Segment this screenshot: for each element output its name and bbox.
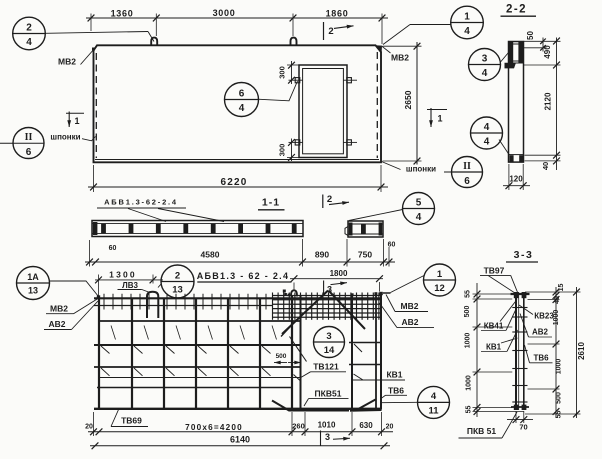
section 2-2 top key block dark walls — [509, 42, 513, 63]
svg-text:55: 55 — [466, 406, 473, 414]
svg-text:300: 300 — [278, 66, 287, 79]
witness lines top chain — [90, 14, 92, 32]
plan: inner bottom line — [95, 159, 379, 161]
plan right corner plate dash — [383, 292, 391, 294]
svg-text:КВ1: КВ1 — [486, 343, 502, 352]
svg-text:13: 13 — [172, 285, 183, 296]
section mark 3 top — [323, 281, 325, 296]
circle mark 1/12 — [424, 264, 456, 296]
plan: hinge marks — [295, 78, 300, 83]
svg-text:55: 55 — [465, 290, 472, 298]
svg-text:II: II — [463, 161, 471, 172]
section mark 2 top — [323, 22, 325, 40]
bent bars PKV51 at bottom — [272, 401, 349, 411]
svg-text:700х6=4200: 700х6=4200 — [185, 423, 243, 432]
reinf plan: lifting loop at opening — [291, 290, 297, 296]
svg-text:АВ2: АВ2 — [532, 328, 549, 337]
svg-text:АБВ1.3-62-2.4: АБВ1.3-62-2.4 — [104, 198, 178, 207]
svg-text:1000: 1000 — [465, 333, 472, 349]
section 2-2 member outline — [509, 42, 524, 163]
svg-text:5: 5 — [416, 197, 422, 208]
svg-text:3: 3 — [327, 285, 332, 295]
svg-text:14: 14 — [324, 345, 335, 356]
dim 1800 — [290, 278, 383, 280]
svg-text:ТВ97: ТВ97 — [484, 266, 505, 276]
svg-text:60: 60 — [388, 242, 396, 249]
1-1 dimension chain — [85, 261, 395, 263]
plan view: panel outline — [94, 45, 382, 162]
circle mark 1/4 — [451, 6, 484, 39]
3-3 member cross ties — [511, 293, 530, 295]
svg-text:1-1: 1-1 — [262, 197, 280, 209]
svg-text:55: 55 — [556, 411, 563, 419]
plan: lifting loop 1 — [151, 38, 157, 46]
dim 490 / 2120 / 40 on shared line — [556, 38, 558, 171]
1-1 left hollow block — [92, 221, 303, 237]
svg-text:1010: 1010 — [318, 421, 336, 430]
circle mark 6/4 at opening — [225, 83, 259, 117]
svg-text:1: 1 — [437, 269, 443, 280]
svg-text:ТВ6: ТВ6 — [388, 385, 404, 395]
svg-text:шпонки: шпонки — [406, 164, 436, 173]
plan: door opening outer — [299, 65, 347, 158]
dim 6220 bottom of plan — [88, 186, 388, 188]
svg-text:МВ2: МВ2 — [50, 304, 68, 314]
3-3 member verticals — [515, 292, 517, 410]
svg-text:2610: 2610 — [577, 342, 586, 360]
svg-text:3000: 3000 — [213, 8, 236, 18]
svg-text:2: 2 — [327, 194, 332, 205]
svg-text:АВ2: АВ2 — [401, 317, 418, 327]
svg-text:МВ2: МВ2 — [391, 53, 409, 63]
reinf plan: top chord — [94, 297, 381, 299]
svg-text:4: 4 — [26, 37, 32, 48]
svg-text:500: 500 — [556, 392, 563, 404]
svg-text:ПКВ 51: ПКВ 51 — [467, 426, 497, 436]
svg-text:4580: 4580 — [201, 250, 220, 260]
svg-text:630: 630 — [359, 421, 373, 430]
dim 120 bottom — [508, 164, 510, 190]
plan: inner right dashed key line — [376, 52, 378, 158]
svg-text:2120: 2120 — [544, 92, 553, 110]
circle mark 3/4 — [469, 49, 501, 81]
circle mark 4/11 — [418, 386, 450, 418]
svg-text:20: 20 — [85, 424, 93, 431]
svg-text:II: II — [25, 132, 33, 143]
svg-text:4: 4 — [484, 137, 490, 148]
circle mark 3/14 — [314, 327, 345, 358]
svg-text:1: 1 — [464, 11, 470, 22]
svg-text:20: 20 — [386, 423, 394, 430]
svg-text:3: 3 — [482, 53, 488, 64]
reinf plan: diagonal bars over opening — [282, 291, 328, 335]
svg-text:4: 4 — [239, 103, 245, 114]
svg-text:ТВ6: ТВ6 — [533, 354, 549, 363]
plan: inner left dashed key line — [95, 53, 97, 158]
circle mark II/6 left + shponki label — [0, 142, 44, 144]
svg-text:2-2: 2-2 — [506, 4, 527, 16]
3-3 right dim line inner — [555, 287, 557, 418]
svg-text:300: 300 — [278, 144, 287, 157]
3-3 outer dim 2610 — [576, 287, 578, 418]
svg-text:1: 1 — [74, 116, 79, 126]
plan: lifting loop 2 — [291, 38, 297, 46]
section mark 1 left — [66, 112, 84, 114]
svg-text:2: 2 — [26, 22, 32, 33]
svg-text:1000: 1000 — [556, 359, 563, 375]
reinf plan: horizontal rows left — [99, 320, 301, 322]
circle mark 2/13 — [161, 265, 194, 298]
svg-text:ТВ69: ТВ69 — [121, 415, 142, 425]
svg-text:260: 260 — [292, 422, 305, 431]
svg-text:1300: 1300 — [109, 270, 137, 280]
reinf plan: embedded plate dots — [97, 295, 100, 298]
reinf plan: top chord cross ticks — [103, 294, 105, 310]
svg-text:6140: 6140 — [230, 434, 250, 444]
dim 50 top — [542, 38, 544, 52]
circle mark 1A/13 — [17, 267, 50, 300]
svg-text:МВ2: МВ2 — [401, 301, 419, 311]
dim 1300 — [95, 279, 163, 281]
svg-text:6220: 6220 — [220, 177, 247, 188]
svg-text:2: 2 — [328, 26, 333, 37]
plan: door opening inner — [303, 69, 344, 154]
svg-text:13: 13 — [28, 286, 38, 296]
svg-text:6: 6 — [239, 88, 245, 99]
svg-text:11: 11 — [428, 405, 439, 416]
dim 2650 right side — [416, 42, 418, 165]
3-3 dim 70 bottom — [515, 411, 517, 423]
section mark 3 bottom — [320, 431, 322, 446]
top dimension chain line — [86, 17, 388, 19]
svg-text:1000: 1000 — [553, 310, 560, 326]
reinf plan: vertical bars — [98, 298, 100, 410]
svg-text:1800: 1800 — [330, 269, 348, 278]
svg-text:2: 2 — [175, 270, 180, 281]
svg-text:4: 4 — [431, 391, 437, 402]
bottom dim chain 1 — [88, 431, 393, 433]
reinf plan: horizontal rows right of opening — [349, 342, 381, 344]
section 2-2 left corbel — [505, 63, 517, 69]
svg-text:1А: 1А — [27, 272, 39, 282]
svg-text:40: 40 — [541, 162, 550, 170]
plan top-right corner plate — [375, 45, 382, 52]
svg-text:15: 15 — [558, 284, 565, 292]
svg-text:АВ2: АВ2 — [48, 319, 65, 329]
svg-text:4: 4 — [484, 122, 490, 133]
plan: hinge axis lines — [289, 79, 303, 81]
svg-text:6: 6 — [464, 176, 470, 187]
dim 300 bottom at opening — [291, 139, 293, 162]
1-1 right block — [348, 221, 383, 237]
circle mark 4/4 — [471, 117, 503, 149]
circle mark 2/4 — [13, 17, 46, 50]
svg-text:3-3: 3-3 — [514, 249, 534, 261]
svg-text:КВ41: КВ41 — [484, 322, 504, 331]
svg-text:490: 490 — [543, 45, 552, 59]
reinf plan: dense mesh zone above opening — [272, 295, 381, 297]
dim 300 top at opening — [291, 61, 293, 84]
svg-text:12: 12 — [434, 283, 445, 294]
svg-text:3: 3 — [326, 331, 331, 342]
svg-text:ТВ121: ТВ121 — [313, 361, 339, 371]
reinf plan: lifting loop LV3 — [147, 292, 158, 318]
svg-text:ПКВ51: ПКВ51 — [315, 388, 342, 398]
svg-text:40: 40 — [554, 296, 561, 304]
svg-text:шпонки: шпонки — [50, 133, 80, 142]
svg-text:КВ23: КВ23 — [534, 311, 554, 320]
svg-text:500: 500 — [464, 306, 471, 318]
3-3 left dim line — [476, 283, 478, 417]
svg-text:4: 4 — [416, 212, 422, 223]
plan corner dot — [92, 48, 95, 51]
svg-text:750: 750 — [358, 250, 372, 260]
svg-text:1000: 1000 — [466, 375, 473, 391]
svg-text:70: 70 — [519, 423, 527, 432]
svg-text:6: 6 — [26, 147, 32, 158]
svg-text:1360: 1360 — [111, 9, 134, 19]
svg-text:890: 890 — [315, 250, 329, 260]
svg-text:2650: 2650 — [403, 90, 413, 109]
svg-text:АБВ1.3 - 62 - 2.4: АБВ1.3 - 62 - 2.4 — [197, 271, 290, 281]
circle mark 5/4 — [403, 193, 435, 225]
svg-text:ЛВ3: ЛВ3 — [122, 281, 138, 290]
svg-text:4: 4 — [464, 26, 470, 37]
svg-text:3: 3 — [325, 432, 330, 442]
reinf plan: bent-bar hook marks — [111, 326, 116, 340]
3-3 corner dots — [514, 292, 519, 298]
svg-text:4: 4 — [482, 68, 488, 79]
bottom dim 6140 — [90, 445, 390, 447]
section mark 1 right — [427, 109, 447, 111]
svg-text:50: 50 — [526, 31, 535, 40]
svg-text:МВ2: МВ2 — [58, 57, 76, 67]
svg-text:500: 500 — [276, 353, 287, 360]
svg-text:1: 1 — [437, 114, 442, 124]
svg-text:120: 120 — [509, 174, 523, 183]
reinf plan: bottom chord — [94, 408, 381, 410]
section 2-2 bottom block — [509, 154, 524, 156]
svg-text:1860: 1860 — [326, 9, 349, 19]
section mark 2 bottom — [322, 195, 324, 209]
svg-text:60: 60 — [109, 245, 117, 252]
svg-text:КВ1: КВ1 — [386, 369, 402, 379]
